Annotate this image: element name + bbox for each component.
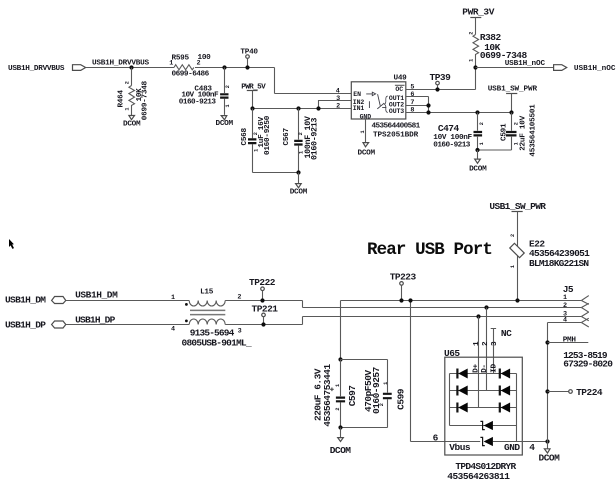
svg-text:453564263811: 453564263811 xyxy=(447,471,510,480)
svg-text:67329-8020: 67329-8020 xyxy=(563,358,613,369)
svg-text:0160-9250: 0160-9250 xyxy=(264,115,272,155)
port USB1H_nOC xyxy=(554,65,616,73)
svg-text:EN: EN xyxy=(353,91,361,98)
ground DCOM under U49 xyxy=(358,143,376,158)
diode array U65 TPD4S012DRYR xyxy=(444,341,522,455)
svg-text:0160-9213: 0160-9213 xyxy=(310,118,320,160)
capacitor C474 xyxy=(433,113,511,151)
svg-text:DCOM: DCOM xyxy=(123,121,141,129)
svg-text:22uF 10V: 22uF 10V xyxy=(519,115,527,150)
resistor R595 xyxy=(169,54,211,78)
svg-text:Rear USB Port: Rear USB Port xyxy=(367,240,492,260)
svg-text:USB1H_nOC: USB1H_nOC xyxy=(574,65,616,73)
svg-text:DCOM: DCOM xyxy=(358,149,376,157)
testpoint TP40 xyxy=(240,49,258,70)
node PMH junction xyxy=(545,340,549,344)
resistor R464 xyxy=(118,68,150,121)
svg-text:1: 1 xyxy=(479,142,485,145)
wire OUT pins xyxy=(406,97,512,113)
port USB1H_DRVVBUS xyxy=(8,65,86,73)
ground DCOM under C483 xyxy=(216,116,234,128)
svg-text:453564105501: 453564105501 xyxy=(530,104,538,157)
svg-text:DCOM: DCOM xyxy=(330,445,352,456)
node D- tap xyxy=(484,305,488,309)
svg-text:0805USB-901ML_: 0805USB-901ML_ xyxy=(182,338,252,349)
svg-text:OUT3: OUT3 xyxy=(389,108,404,115)
wire DP xyxy=(66,317,582,325)
svg-text:USB1H_DRVVBUS: USB1H_DRVVBUS xyxy=(92,60,149,68)
wire Vbus drop to U65 xyxy=(411,301,481,442)
node C474 gnd junction xyxy=(475,148,479,152)
node E22/VBUS junction xyxy=(515,298,519,302)
svg-text:2: 2 xyxy=(479,122,485,125)
testpoint TP39 xyxy=(430,72,452,91)
svg-text:C591: C591 xyxy=(500,123,508,141)
svg-text:0699-7348: 0699-7348 xyxy=(142,80,150,120)
testpoint TP221 xyxy=(252,304,279,327)
svg-text:C567: C567 xyxy=(283,127,291,145)
svg-text:L15: L15 xyxy=(200,289,214,297)
svg-text:C597: C597 xyxy=(347,385,358,407)
svg-text:2: 2 xyxy=(335,407,341,410)
svg-text:DCOM: DCOM xyxy=(469,165,487,173)
node junction R464 xyxy=(129,65,133,69)
svg-text:USB1H_DM: USB1H_DM xyxy=(5,295,46,306)
ground DCOM under C474 xyxy=(469,150,487,173)
wire IN2 tap xyxy=(319,101,352,109)
svg-text:OC: OC xyxy=(395,86,403,93)
svg-text:TP222: TP222 xyxy=(249,277,276,288)
svg-text:DCOM: DCOM xyxy=(216,120,234,128)
node C597 gnd junction xyxy=(338,425,342,429)
ground DCOM under C567 xyxy=(290,173,308,197)
svg-text:DCOM: DCOM xyxy=(539,452,561,463)
svg-text:3: 3 xyxy=(238,327,242,335)
svg-text:1: 1 xyxy=(473,341,481,346)
svg-text:TP224: TP224 xyxy=(576,387,603,398)
svg-text:1: 1 xyxy=(335,384,341,387)
svg-text:1: 1 xyxy=(171,294,175,302)
wire D+ D- to U65 xyxy=(479,308,487,408)
svg-text:2: 2 xyxy=(237,294,241,302)
svg-text:C599: C599 xyxy=(396,388,407,410)
diode D5 row2 right xyxy=(501,386,511,396)
svg-text:GND: GND xyxy=(504,442,520,453)
svg-text:USB1H_DP: USB1H_DP xyxy=(75,314,115,325)
svg-text:1: 1 xyxy=(383,382,389,385)
wire IN1 rail xyxy=(253,108,352,110)
svg-text:0699-6486: 0699-6486 xyxy=(172,71,210,79)
diode D1 row1 left xyxy=(458,369,468,379)
svg-text:D+: D+ xyxy=(473,364,481,373)
svg-text:BLM18KG221SN: BLM18KG221SN xyxy=(529,258,589,269)
wire DM xyxy=(66,301,582,308)
svg-text:TPS2051BDR: TPS2051BDR xyxy=(373,131,419,139)
svg-text:USB1_SW_PWR: USB1_SW_PWR xyxy=(488,85,538,93)
svg-text:TP223: TP223 xyxy=(390,272,417,283)
svg-text:C568: C568 xyxy=(241,127,249,145)
svg-text:USB1H_DRVVBUS: USB1H_DRVVBUS xyxy=(8,65,65,73)
svg-text:R464: R464 xyxy=(118,89,126,107)
svg-text:1: 1 xyxy=(510,265,516,268)
testpoint TP222 xyxy=(249,277,276,303)
capacitor C599 xyxy=(341,360,407,428)
svg-text:USB1H_DP: USB1H_DP xyxy=(5,319,46,330)
svg-text:NC: NC xyxy=(501,328,512,339)
svg-text:PWR_3V: PWR_3V xyxy=(462,7,494,18)
diode D3 row3 left xyxy=(458,403,468,413)
diode D4 row1 right xyxy=(501,369,511,379)
wire nOC xyxy=(476,67,554,69)
svg-text:IN1: IN1 xyxy=(353,105,365,112)
svg-text:2: 2 xyxy=(563,302,567,310)
svg-text:2: 2 xyxy=(125,81,131,84)
svg-text:1: 1 xyxy=(563,294,567,302)
node D+ tap xyxy=(476,314,480,318)
svg-text:1: 1 xyxy=(169,60,173,68)
svg-text:Vbus: Vbus xyxy=(449,442,471,453)
capacitor C597 xyxy=(312,357,358,427)
wire OC pin5 xyxy=(406,68,476,90)
svg-text:PMH: PMH xyxy=(563,337,577,345)
zener Z2 on Vbus row xyxy=(480,437,547,446)
svg-text:D-: D- xyxy=(481,364,489,373)
svg-text:2: 2 xyxy=(225,85,231,88)
node GND/pin4 junction xyxy=(545,439,549,443)
power net USB1_SW_PWR top xyxy=(488,85,538,112)
ferrite bead E22 xyxy=(510,234,590,269)
zener Z1 xyxy=(480,421,493,430)
NC stub xyxy=(491,328,512,374)
svg-text:4: 4 xyxy=(529,442,535,453)
svg-text:R595: R595 xyxy=(172,55,190,63)
capacitor C591 xyxy=(500,104,537,157)
svg-text:3: 3 xyxy=(491,341,499,346)
svg-text:C474: C474 xyxy=(438,123,460,134)
svg-text:USB1_SW_PWR: USB1_SW_PWR xyxy=(489,201,546,212)
svg-text:1: 1 xyxy=(125,107,131,110)
svg-text:TP39: TP39 xyxy=(430,72,452,83)
svg-text:2: 2 xyxy=(197,60,201,68)
svg-text:2: 2 xyxy=(482,341,490,346)
diode D6 row3 right xyxy=(501,403,511,413)
svg-text:8: 8 xyxy=(410,107,414,115)
testpoint TP224 xyxy=(545,387,603,398)
power net USB1_SW_PWR bottom xyxy=(489,201,546,301)
svg-text:1: 1 xyxy=(468,59,474,62)
wire J5 pin4 xyxy=(548,323,582,442)
svg-text:USB1H_nOC: USB1H_nOC xyxy=(505,60,546,68)
svg-text:4: 4 xyxy=(171,325,175,333)
svg-text:453564400581: 453564400581 xyxy=(372,123,421,131)
svg-text:0160-9213: 0160-9213 xyxy=(179,99,217,107)
svg-text:0160-9257: 0160-9257 xyxy=(371,366,382,414)
capacitor C483 xyxy=(179,65,231,115)
svg-text:2: 2 xyxy=(510,234,516,237)
connector J5 xyxy=(563,284,589,327)
svg-text:DCOM: DCOM xyxy=(290,189,308,197)
node C568/C567 gnd junction xyxy=(296,170,300,174)
ground DCOM under U65 xyxy=(539,442,561,464)
svg-text:ID: ID xyxy=(490,364,498,373)
svg-text:1: 1 xyxy=(225,104,231,107)
port USB1H_DP xyxy=(5,319,66,330)
svg-text:453564753441: 453564753441 xyxy=(322,363,333,426)
resistor R382 xyxy=(468,32,527,68)
wire top main xyxy=(86,68,352,94)
svg-text:USB1H_DM: USB1H_DM xyxy=(75,290,118,301)
node PWR5V junction xyxy=(250,106,254,110)
op-amp U49 TPS2051BDR xyxy=(336,75,421,140)
svg-text:U49: U49 xyxy=(394,75,408,83)
svg-text:2: 2 xyxy=(468,32,474,35)
diode D2 row2 left xyxy=(458,386,468,396)
ground DCOM under C597 xyxy=(330,428,352,457)
mouse cursor xyxy=(9,239,14,249)
power PWR_3V xyxy=(462,7,494,35)
node R382/nOC junction xyxy=(473,65,477,69)
svg-text:6: 6 xyxy=(433,432,439,443)
node OUT3 taps xyxy=(475,110,479,114)
svg-text:2: 2 xyxy=(336,102,340,110)
wire PMH xyxy=(548,342,589,344)
capacitor C567 xyxy=(283,106,320,172)
wire VBUS rail xyxy=(341,301,582,360)
wire U49 GND stub xyxy=(365,119,367,142)
capacitor C568 xyxy=(241,109,299,173)
svg-text:1: 1 xyxy=(253,149,259,152)
inductor L15 common-mode choke xyxy=(171,289,252,349)
port USB1H_DM xyxy=(5,295,66,306)
svg-text:0160-9213: 0160-9213 xyxy=(433,142,470,150)
testpoint TP223 xyxy=(390,272,417,303)
svg-text:4: 4 xyxy=(563,317,567,325)
svg-text:1: 1 xyxy=(360,130,366,133)
power PWR_5V xyxy=(241,84,266,109)
ground DCOM under R464 xyxy=(123,116,141,129)
svg-text:6: 6 xyxy=(410,91,414,99)
